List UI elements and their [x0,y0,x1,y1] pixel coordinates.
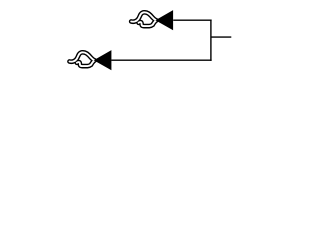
wire: top symbol output to right [173,19,211,21]
triangle (arrowhead) of bottom symbol [94,50,112,70]
wire: middle stub to the right [211,36,231,38]
wire: vertical connecting line [210,20,212,61]
curl (pigtail) of bottom symbol [70,52,95,61]
triangle (arrowhead) of top symbol [155,10,173,30]
wire: bottom symbol to vertical line [111,59,211,61]
curl (pigtail) of top symbol [131,12,156,21]
